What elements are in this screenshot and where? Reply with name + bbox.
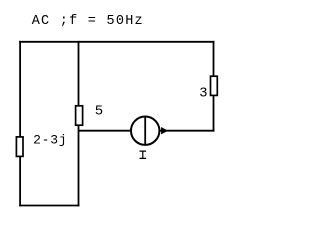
wire middle vertical: [78, 41, 80, 207]
wire top horizontal: [19, 41, 214, 43]
wire right vertical: [213, 41, 215, 132]
current source arrowhead: [161, 127, 168, 134]
current source internal diameter line: [144, 117, 146, 145]
svg-text:3: 3: [199, 87, 207, 102]
svg-text:5: 5: [95, 103, 103, 119]
resistor 2-3j body: [16, 137, 23, 157]
wire bottom horizontal: [19, 205, 79, 207]
wire middle horizontal to current source: [79, 130, 215, 132]
current source label I: [140, 151, 147, 158]
resistor 5 body: [76, 106, 83, 125]
wire left vertical: [19, 41, 21, 207]
svg-text:2-3j: 2-3j: [33, 132, 67, 147]
current source I circle: [131, 117, 159, 145]
svg-text:AC ;f = 50Hz: AC ;f = 50Hz: [32, 14, 144, 29]
resistor 3 body: [211, 76, 218, 95]
